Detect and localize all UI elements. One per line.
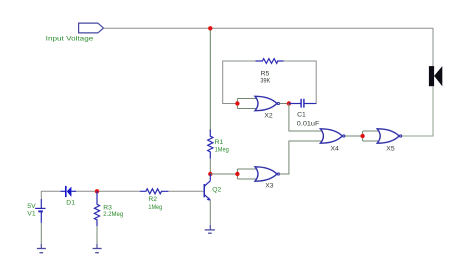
- svg-text:2.2Meg: 2.2Meg: [103, 211, 123, 218]
- wire feedback left: [223, 61, 256, 104]
- resistor R2: [140, 189, 169, 211]
- svg-text:X4: X4: [331, 145, 340, 152]
- svg-text:X3: X3: [265, 183, 274, 190]
- resistor R3: [94, 191, 123, 226]
- svg-text:R2: R2: [148, 196, 157, 203]
- ground under Q2: [205, 225, 215, 233]
- wire R1 to collector node: [209, 159, 211, 174]
- wire collector node to X3: [210, 173, 237, 175]
- wire speaker to X5 output: [402, 86, 433, 136]
- svg-text:5V: 5V: [27, 203, 36, 210]
- gate X3: [255, 167, 279, 190]
- wire X3 output to X4 bottom input: [280, 141, 322, 174]
- transistor Q2: [204, 174, 222, 225]
- svg-text:0.01uF: 0.01uF: [297, 120, 320, 127]
- svg-text:Q2: Q2: [212, 187, 221, 194]
- svg-text:39K: 39K: [260, 77, 270, 84]
- wire V1 to D1: [41, 191, 60, 199]
- wire top rail: [104, 28, 434, 66]
- wire R3 to ground: [96, 226, 98, 244]
- wire input rail vertical: [209, 28, 211, 131]
- node junction top rail: [208, 26, 212, 30]
- resistor R5: [256, 59, 284, 85]
- wire X2 out to X4 top input: [289, 104, 322, 132]
- wire D1 to node: [76, 190, 97, 192]
- wire base: [168, 190, 203, 192]
- node D1/R3 junction: [95, 189, 99, 193]
- node X3 input junction: [235, 172, 239, 176]
- svg-text:X5: X5: [386, 145, 395, 152]
- node X5 input junction: [360, 134, 364, 138]
- speaker LS1: [429, 66, 442, 86]
- svg-text:1Meg: 1Meg: [215, 147, 229, 154]
- wire X2 input loop: [237, 99, 257, 109]
- gate X2: [255, 96, 279, 119]
- svg-text:R1: R1: [215, 139, 224, 146]
- diode D1: [60, 186, 76, 206]
- resistor R1: [208, 130, 229, 159]
- battery V1: [27, 199, 45, 223]
- svg-text:V1: V1: [27, 211, 36, 218]
- ground under R3: [93, 244, 102, 253]
- svg-text:1Meg: 1Meg: [148, 204, 162, 211]
- svg-text:X2: X2: [264, 112, 273, 119]
- svg-text:R5: R5: [261, 70, 270, 77]
- svg-text:Input Voltage: Input Voltage: [46, 35, 94, 42]
- ground under V1: [37, 244, 46, 253]
- node Input Voltage tag: [46, 23, 104, 42]
- node X2 input junction: [235, 101, 239, 105]
- wire X3 input loop: [237, 169, 257, 179]
- wire D1 node to R2: [97, 190, 140, 192]
- svg-text:C1: C1: [297, 111, 306, 118]
- capacitor C1: [289, 99, 320, 128]
- wire feedback right: [284, 61, 317, 104]
- svg-text:D1: D1: [66, 199, 75, 206]
- gate X5: [377, 129, 401, 153]
- node collector junction: [208, 172, 212, 176]
- wire X5 input loop: [363, 131, 379, 141]
- gate X4: [320, 129, 344, 153]
- wire X2 output: [280, 103, 289, 105]
- wire X4 output to X5: [345, 135, 363, 137]
- wire V1 to ground: [40, 223, 42, 244]
- node X2 output junction: [287, 101, 291, 105]
